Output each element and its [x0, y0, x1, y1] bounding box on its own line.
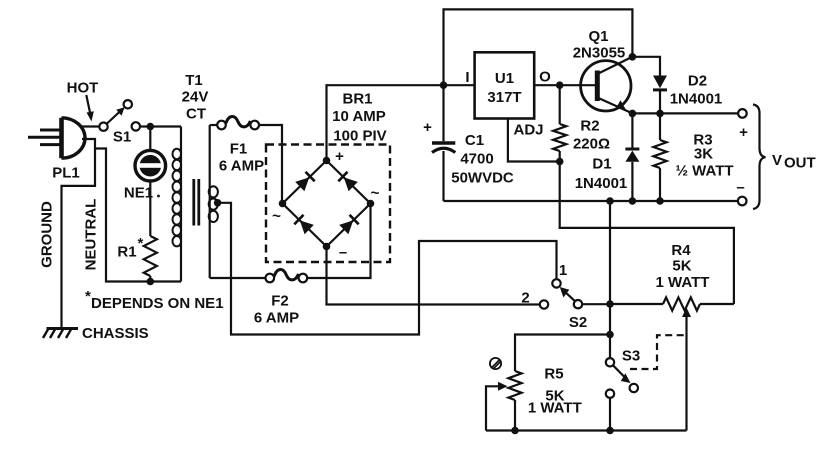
svg-text:DEPENDS ON NE1: DEPENDS ON NE1 [91, 295, 224, 312]
svg-text:*: * [138, 235, 144, 252]
svg-text:S2: S2 [569, 314, 587, 331]
svg-text:C1: C1 [465, 132, 484, 149]
svg-text:317T: 317T [487, 89, 521, 106]
svg-text:10 AMP: 10 AMP [332, 108, 386, 125]
svg-text:NE1: NE1 [124, 185, 153, 202]
svg-text:220Ω: 220Ω [573, 136, 610, 153]
screwdriver adjust symbol [490, 358, 501, 369]
svg-text:½ WATT: ½ WATT [675, 163, 733, 180]
svg-text:2: 2 [521, 290, 529, 307]
junction dots on - rail [606, 197, 614, 205]
neon lamp NE1 [135, 150, 166, 181]
wire negative vertical to switches [609, 201, 611, 358]
wire bottom rail [486, 429, 687, 431]
resistor R1 [144, 236, 157, 276]
svg-text:D1: D1 [592, 156, 611, 173]
svg-text:CT: CT [186, 106, 206, 123]
bridge diode top-right [344, 177, 358, 191]
wire neutral [82, 139, 181, 282]
output terminal - [738, 197, 747, 206]
switch S2 [540, 279, 610, 309]
bridge diode bottom-right [339, 220, 353, 234]
wire U1 output [534, 84, 596, 86]
wire F1 to bridge ac1 [259, 125, 282, 204]
wire D1 string [631, 113, 633, 149]
switch S1 [99, 100, 140, 131]
bridge diamond wires [283, 161, 371, 247]
junction dot R5 bottom [511, 427, 519, 435]
center tap dot [214, 199, 222, 207]
wire secondary bottom to F2 [210, 277, 266, 279]
diode D2 [653, 76, 667, 89]
svg-text:GROUND: GROUND [39, 201, 56, 268]
fuse F2 [266, 269, 308, 282]
VOUT brace [753, 105, 766, 210]
wire bridge - down to S2 position 2 [327, 247, 540, 305]
transformer T1 core [192, 179, 195, 226]
wire R5 bottom [514, 400, 516, 431]
wire ground [62, 149, 96, 328]
wire D2 bottom to + rail [659, 91, 661, 113]
bridge node dots [323, 157, 331, 165]
wire ADJ pin [508, 119, 560, 162]
svg-text:50WVDC: 50WVDC [451, 170, 514, 187]
svg-text:1N4001: 1N4001 [670, 91, 723, 108]
svg-text:U1: U1 [495, 70, 514, 87]
svg-text:PL1: PL1 [52, 165, 80, 182]
junction dot emitter [629, 110, 637, 118]
svg-text:NEUTRAL: NEUTRAL [83, 199, 100, 271]
resistor R2 [553, 85, 566, 161]
svg-text:R4: R4 [671, 242, 691, 259]
dashed link S3 to R4 wiper [630, 335, 687, 369]
svg-text:CHASSIS: CHASSIS [82, 325, 149, 342]
svg-text:S3: S3 [622, 348, 640, 365]
svg-text:F1: F1 [230, 141, 248, 158]
junction dot R5 top node [606, 331, 614, 339]
wire collector to D2 [632, 57, 660, 76]
svg-text:100 PIV: 100 PIV [333, 128, 386, 145]
svg-text:6 AMP: 6 AMP [254, 310, 299, 327]
output terminal + [738, 109, 747, 118]
svg-text:~: ~ [371, 185, 380, 202]
svg-text:1N4001: 1N4001 [575, 175, 628, 192]
svg-text:Q1: Q1 [588, 28, 608, 45]
capacitor C1 [432, 85, 455, 201]
wire F2 to bridge ac2 [307, 204, 370, 279]
junction dot collector [629, 53, 637, 61]
wire top loop rectangle [444, 9, 633, 85]
potentiometer R4 [610, 297, 734, 430]
svg-text:T1: T1 [185, 72, 203, 89]
transistor Q1 [581, 57, 633, 114]
junction dot C1 top [440, 81, 448, 89]
wire secondary top to F1 [210, 124, 218, 126]
chassis ground symbol [43, 329, 78, 339]
junction dot R2 bottom / ADJ [556, 158, 564, 166]
svg-text:V: V [772, 152, 782, 169]
plug PL1 [28, 118, 85, 158]
svg-text:4700: 4700 [460, 151, 493, 168]
junction dot R2 top [556, 81, 564, 89]
wire R5 top from negative node [515, 335, 610, 372]
wire hot from plug PL1 to S1 [80, 125, 99, 127]
transformer T1 secondary winding [209, 125, 218, 278]
diode D1 [625, 151, 639, 162]
svg-text:ADJ: ADJ [513, 122, 543, 139]
svg-text:1 WATT: 1 WATT [528, 400, 582, 417]
wire S1 to transformer primary top [140, 125, 181, 127]
svg-text:1: 1 [559, 262, 567, 279]
svg-text:I: I [465, 69, 469, 86]
svg-text:R5: R5 [544, 366, 563, 383]
bridge diode bottom-left [300, 220, 314, 234]
wire ADJ net down and over to R4 right [560, 162, 734, 305]
svg-text:–: – [339, 244, 347, 261]
svg-text:1 WATT: 1 WATT [656, 274, 710, 291]
wire S3 bottom to rail [609, 398, 611, 431]
transformer T1 primary winding [173, 127, 182, 282]
svg-text:–: – [736, 179, 744, 196]
junction dot R1/neutral [147, 278, 155, 286]
R5 wiper arm [486, 382, 508, 431]
switch S3 [606, 358, 638, 398]
svg-text:O: O [539, 69, 551, 86]
wire R1 bottom [149, 276, 151, 282]
svg-text:5K: 5K [672, 258, 691, 275]
arrow from HOT label [86, 95, 94, 122]
svg-text:R1: R1 [117, 244, 136, 261]
svg-text:+: + [739, 124, 748, 141]
svg-text:~: ~ [272, 208, 281, 225]
junction dot node hot/NE1 [147, 123, 155, 131]
svg-text:R2: R2 [580, 118, 599, 135]
junction dot S2 node [606, 300, 614, 308]
svg-text:+: + [423, 119, 432, 136]
svg-text:24V: 24V [182, 89, 209, 106]
resistor R3 [653, 113, 666, 201]
potentiometer R5 [508, 371, 521, 400]
wire NE1 top lead [149, 127, 151, 150]
fuse F1 [217, 116, 259, 129]
svg-text:+: + [335, 148, 344, 165]
svg-text:BR1: BR1 [342, 91, 372, 108]
svg-text:OUT: OUT [784, 155, 816, 172]
junction dot D2/R3 top [656, 110, 664, 118]
junction dot S3 bottom [606, 427, 614, 435]
svg-text:2N3055: 2N3055 [573, 45, 626, 62]
svg-text:6 AMP: 6 AMP [219, 158, 264, 175]
svg-text:F2: F2 [271, 293, 289, 310]
wire - output rail [444, 200, 738, 202]
bridge diode top-left [295, 177, 309, 191]
wire NE1 to R1 [149, 181, 151, 236]
wire D1 bottom [631, 162, 633, 201]
svg-text:S1: S1 [113, 129, 131, 146]
svg-text:3K: 3K [694, 146, 713, 163]
wire bridge + to input rail [327, 85, 475, 160]
bridge rectifier BR1 dashed box [266, 145, 390, 263]
svg-text:HOT: HOT [67, 80, 99, 97]
wire + output rail [632, 112, 738, 114]
svg-text:D2: D2 [688, 73, 707, 90]
wire center tap to S2 position 1 [218, 203, 557, 335]
regulator U1 box [475, 52, 535, 118]
